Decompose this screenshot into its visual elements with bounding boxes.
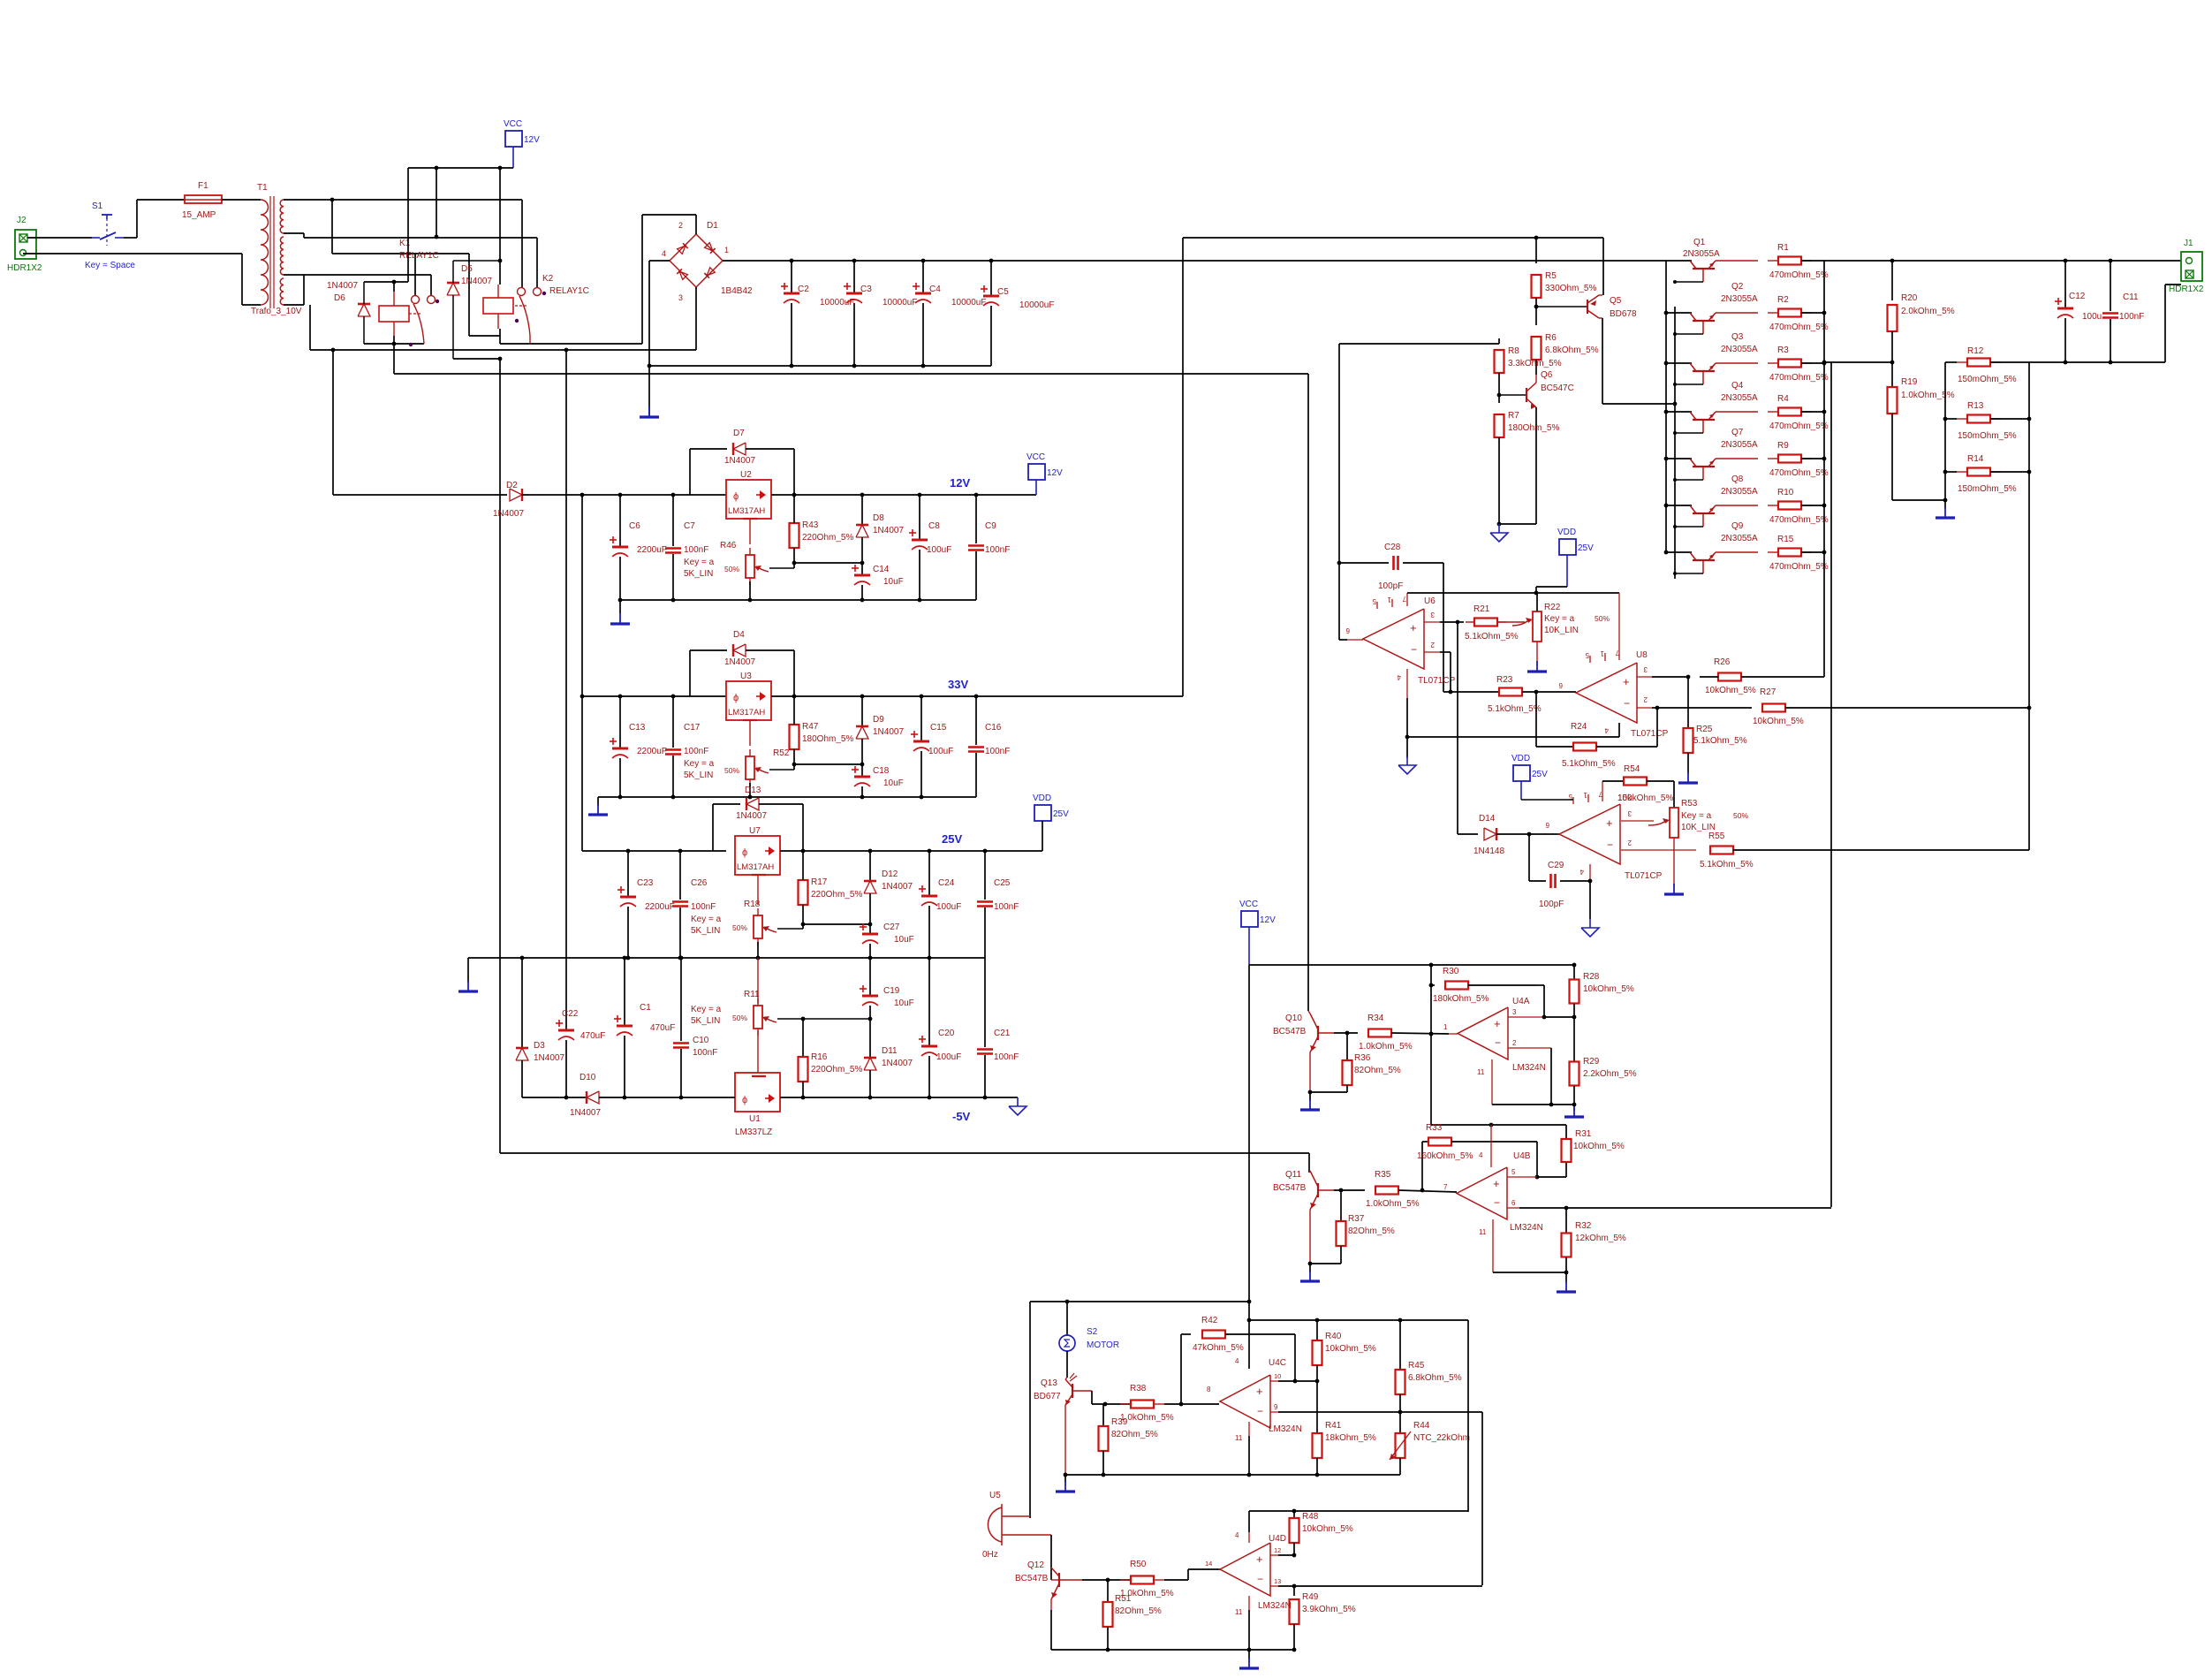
svg-text:50%: 50% — [1595, 614, 1610, 623]
capacitor C21 — [984, 958, 986, 1047]
svg-text:D13: D13 — [745, 786, 761, 795]
svg-text:82Ohm_5%: 82Ohm_5% — [1354, 1066, 1401, 1075]
svg-text:12kOhm_5%: 12kOhm_5% — [1575, 1234, 1626, 1243]
node filter cap C2 top — [790, 259, 794, 263]
wire adj row to D12 and C27 — [803, 923, 870, 925]
svg-text:5: 5 — [1372, 597, 1376, 605]
svg-text:LM324N: LM324N — [1269, 1424, 1302, 1434]
svg-text:4: 4 — [1235, 1357, 1239, 1365]
wire U2 adj to pot — [749, 519, 751, 544]
diode D2 feed to regulators — [333, 494, 507, 496]
svg-text:100nF: 100nF — [985, 545, 1010, 555]
svg-text:U2: U2 — [740, 470, 752, 480]
wire K2 coil bottom frame — [499, 329, 501, 344]
svg-text:5: 5 — [1511, 1168, 1516, 1176]
svg-text:C11: C11 — [2123, 292, 2139, 302]
svg-text:F1: F1 — [198, 181, 208, 191]
resistor R8 — [1498, 338, 1500, 344]
wire relay frame stub — [309, 305, 311, 350]
svg-text:2: 2 — [1512, 1039, 1517, 1047]
capacitor C13 — [619, 696, 621, 748]
U6 output pin 6 — [1347, 639, 1363, 641]
svg-text:470mOhm_5%: 470mOhm_5% — [1769, 323, 1829, 332]
svg-text:C17: C17 — [684, 723, 701, 733]
capacitor C3 — [853, 261, 855, 292]
node C15 top — [920, 695, 924, 699]
svg-text:Key = a: Key = a — [1544, 614, 1575, 624]
wire R19 bottom to ground — [1892, 499, 1945, 501]
wire Q13 base node — [1091, 1391, 1093, 1404]
svg-text:1.0kOhm_5%: 1.0kOhm_5% — [1120, 1589, 1174, 1598]
resistor R1 470mOhm — [1716, 260, 1758, 262]
svg-text:VDD: VDD — [1557, 528, 1576, 537]
capacitor C8 — [919, 495, 920, 539]
svg-text:12V: 12V — [1260, 915, 1276, 925]
node ac return into common bus — [565, 957, 567, 959]
U4C pin11 stub — [1248, 1422, 1250, 1436]
svg-text:220Ohm_5%: 220Ohm_5% — [811, 1065, 862, 1074]
wire S1 to F1 — [124, 237, 137, 239]
wire C28 right to R23 left — [1443, 563, 1444, 692]
wire R18 bottom to common bus — [757, 942, 759, 958]
svg-text:−: − — [1495, 1036, 1501, 1049]
svg-text:10000uF: 10000uF — [820, 298, 854, 308]
wire pin9 line down to U4D pin13 loop — [1481, 1412, 1483, 1585]
svg-text:1N4007: 1N4007 — [736, 811, 767, 821]
op-amp U9 TL071CP — [1559, 804, 1620, 864]
svg-text:MOTOR: MOTOR — [1087, 1340, 1119, 1350]
svg-text:10000uF: 10000uF — [883, 298, 917, 308]
wire R18 wiper to adj node — [777, 928, 803, 930]
svg-text:R4: R4 — [1777, 394, 1789, 404]
ground Q13 emitter — [1064, 1475, 1066, 1483]
svg-text:+: + — [1606, 816, 1613, 830]
svg-text:470uF: 470uF — [650, 1023, 675, 1033]
wire R33 right to U4B pin5 node — [1451, 1141, 1537, 1143]
svg-text:VCC: VCC — [504, 119, 522, 129]
svg-text:R49: R49 — [1302, 1592, 1319, 1602]
svg-text:D11: D11 — [882, 1046, 898, 1056]
svg-text:ϕ: ϕ — [742, 847, 747, 858]
svg-text:15_AMP: 15_AMP — [182, 210, 216, 220]
svg-text:C14: C14 — [873, 565, 890, 574]
U9 pin2 wire to R55 — [1621, 849, 1696, 851]
voltage regulator U2 LM317AH — [726, 480, 771, 519]
potentiometer R46 5K_LIN — [746, 555, 754, 578]
thermistor R44 NTC_22kOhm — [1399, 1412, 1401, 1433]
svg-text:U7: U7 — [749, 826, 761, 836]
svg-text:Q12: Q12 — [1027, 1560, 1044, 1570]
wire Q7 base to base bus — [1675, 479, 1703, 481]
svg-text:11: 11 — [1479, 1228, 1487, 1236]
wire Q6 collector to R6 bottom — [1535, 375, 1537, 383]
wire U4C pin9 row — [1278, 1411, 1482, 1413]
svg-text:100uF: 100uF — [927, 545, 951, 555]
U8 pin2 wire — [1637, 707, 1652, 709]
wire 33V input row — [580, 695, 585, 699]
svg-text:3: 3 — [1643, 665, 1648, 673]
svg-text:BD677: BD677 — [1034, 1392, 1061, 1401]
wire U4B bottom row — [1493, 1272, 1566, 1273]
ground R53 — [1673, 884, 1675, 894]
svg-text:U4D: U4D — [1269, 1534, 1286, 1544]
svg-text:1N4007: 1N4007 — [493, 509, 524, 519]
resistor R35 — [1375, 1189, 1376, 1191]
svg-text:100pF: 100pF — [1539, 900, 1564, 909]
svg-text:1.0kOhm_5%: 1.0kOhm_5% — [1120, 1413, 1174, 1423]
wire VCC to R30 node — [1429, 963, 1434, 968]
resistor R26 — [1717, 676, 1719, 678]
svg-text:R29: R29 — [1583, 1057, 1600, 1067]
resistor R54 — [1602, 780, 1625, 782]
power VCC 12V top — [505, 131, 522, 147]
svg-text:C7: C7 — [684, 521, 695, 531]
wire U7 adj to pot — [757, 875, 759, 905]
wire K2 common up to bridge ac input — [641, 215, 643, 344]
resistor R47 — [793, 724, 795, 725]
node C25 top — [983, 849, 988, 854]
node R17 top — [801, 849, 806, 854]
svg-text:0Hz: 0Hz — [982, 1550, 998, 1560]
svg-text:12: 12 — [1274, 1546, 1281, 1554]
resistor R24 — [1535, 692, 1537, 747]
svg-text:LM317AH: LM317AH — [728, 708, 765, 718]
svg-text:2.0kOhm_5%: 2.0kOhm_5% — [1901, 307, 1955, 316]
svg-text:K2: K2 — [542, 274, 554, 284]
svg-text:U3: U3 — [740, 672, 752, 681]
transistor Q8 2N3055A — [1664, 504, 1669, 508]
capacitor C6 — [619, 495, 621, 546]
U8 pin stubs top 5 1 7 — [1589, 656, 1591, 663]
diode D7 bypass — [689, 449, 691, 495]
wire ac return down the left side — [565, 350, 567, 1029]
svg-text:+: + — [1623, 675, 1630, 688]
svg-text:R21: R21 — [1473, 604, 1490, 614]
svg-text:50%: 50% — [732, 923, 747, 932]
svg-text:−: − — [1257, 1573, 1263, 1585]
op-amp U4C LM324N — [1220, 1375, 1270, 1428]
svg-text:C13: C13 — [629, 723, 646, 733]
resistor R43 — [793, 522, 795, 524]
capacitor C16 — [975, 696, 977, 745]
wire caps bottom rail — [649, 365, 991, 367]
wire K2 coil top to VCC line — [499, 168, 501, 285]
svg-text:100nF: 100nF — [684, 545, 708, 555]
svg-text:100nF: 100nF — [684, 747, 708, 756]
svg-text:R50: R50 — [1130, 1560, 1147, 1569]
resistor R17 — [802, 879, 804, 881]
svg-text:220Ohm_5%: 220Ohm_5% — [811, 890, 862, 900]
svg-text:4: 4 — [1235, 1531, 1239, 1539]
svg-text:10k: 10k — [1617, 793, 1632, 803]
fuse F1 — [185, 195, 222, 203]
svg-text:R28: R28 — [1583, 972, 1600, 982]
svg-text:4: 4 — [1604, 726, 1609, 734]
svg-text:7: 7 — [1598, 790, 1602, 798]
svg-text:S2: S2 — [1087, 1327, 1098, 1337]
wire F1 to T1 — [222, 199, 261, 201]
svg-text:R36: R36 — [1354, 1053, 1371, 1063]
resistor R51 — [1107, 1580, 1109, 1602]
node C7 top — [671, 493, 676, 497]
wire T1 bottom tap — [284, 304, 304, 306]
svg-text:BD678: BD678 — [1610, 309, 1637, 319]
wire K1 coil bottom frame — [364, 343, 424, 345]
power VCC 12V at regulator output — [1028, 464, 1045, 480]
U4D pin4 stub — [1248, 1511, 1250, 1532]
svg-text:100uF: 100uF — [928, 747, 953, 756]
svg-text:5: 5 — [1585, 651, 1589, 659]
node filter cap C4 top — [921, 259, 926, 263]
U9 pin4 and C29 — [1589, 864, 1591, 881]
svg-text:R27: R27 — [1760, 687, 1776, 697]
svg-text:C15: C15 — [930, 723, 947, 733]
wire driver output rail to transistor bank — [1602, 260, 1666, 262]
wire R12 row to C12 C11 J1 sense — [2029, 361, 2165, 363]
resistor R14 — [1943, 470, 1948, 475]
svg-text:2N3055A: 2N3055A — [1721, 534, 1758, 543]
svg-text:470mOhm_5%: 470mOhm_5% — [1769, 468, 1829, 478]
collector bus Q1-Q9 — [1665, 261, 1667, 552]
ground U4A — [1573, 1105, 1575, 1110]
wire R46 bottom to ground bus — [749, 581, 751, 600]
wire adj row to D9 and C18 — [794, 763, 862, 765]
wire S2 to Q13 collector — [1066, 1351, 1068, 1378]
svg-text:D2: D2 — [506, 481, 518, 490]
wire R54 to R53 top — [1647, 780, 1674, 782]
svg-text:D8: D8 — [873, 513, 884, 523]
svg-text:R42: R42 — [1201, 1316, 1218, 1325]
ground common bus — [467, 958, 469, 983]
wire sense tap row — [1824, 361, 1892, 363]
resistor R27 — [1657, 707, 1752, 709]
svg-text:R44: R44 — [1413, 1421, 1430, 1431]
svg-text:C9: C9 — [985, 521, 996, 531]
svg-text:-5V: -5V — [952, 1110, 971, 1123]
svg-text:R31: R31 — [1575, 1129, 1592, 1139]
svg-text:Q6: Q6 — [1541, 370, 1553, 380]
svg-text:10: 10 — [1274, 1372, 1281, 1380]
svg-text:S1: S1 — [92, 201, 103, 211]
svg-text:47kOhm_5%: 47kOhm_5% — [1193, 1343, 1244, 1353]
wire relay drive bus down to Q10 collector — [1307, 374, 1309, 1011]
capacitor C5 — [990, 261, 992, 295]
wire U4A pin3 node — [1542, 1015, 1547, 1020]
svg-text:1.0kOhm_5%: 1.0kOhm_5% — [1359, 1042, 1413, 1052]
resistor R30 — [1429, 983, 1434, 988]
wire VDD U9 supply — [1520, 781, 1522, 800]
svg-text:10uF: 10uF — [883, 778, 904, 788]
transistor Q11 BC547B — [1317, 1183, 1319, 1197]
resistor R28 — [1573, 965, 1575, 980]
U8 pin3 wire to R26 — [1637, 676, 1652, 678]
capacitor C7 — [672, 495, 674, 546]
svg-text:TL071CP: TL071CP — [1631, 729, 1669, 739]
svg-text:T1: T1 — [257, 183, 268, 193]
svg-text:25V: 25V — [1578, 543, 1594, 553]
wire R30 right to U4A pin3 node — [1536, 984, 1544, 986]
connector J2 — [15, 230, 36, 259]
voltage regulator U7 LM317AH — [735, 836, 780, 875]
relay K1 armature — [413, 304, 424, 344]
resistor R9 470mOhm — [1716, 458, 1758, 459]
resistor R25 — [1687, 677, 1689, 728]
svg-text:C24: C24 — [938, 878, 955, 888]
svg-text:HDR1X2: HDR1X2 — [2169, 285, 2204, 294]
ground U4D section — [1248, 1650, 1250, 1659]
svg-text:R47: R47 — [802, 722, 819, 732]
resistor R12 — [1945, 361, 1957, 363]
svg-text:R43: R43 — [802, 520, 819, 530]
wire op-amp supply rail 25V — [1407, 592, 1619, 594]
svg-text:10kOhm_5%: 10kOhm_5% — [1573, 1142, 1625, 1151]
svg-text:R8: R8 — [1508, 346, 1519, 356]
svg-text:D6: D6 — [334, 293, 345, 303]
node C24 top — [928, 849, 932, 854]
U6 pin 2 wire — [1424, 651, 1440, 653]
connector J1 — [2181, 252, 2202, 281]
capacitor C28 100pF — [1339, 562, 1389, 564]
transistor Q6 BC547C — [1499, 394, 1526, 396]
ground at bridge minus — [648, 406, 650, 417]
svg-text:2200uF: 2200uF — [637, 545, 667, 555]
svg-text:Q7: Q7 — [1731, 428, 1744, 437]
relay K2 contacts — [518, 288, 526, 296]
svg-text:1.0kOhm_5%: 1.0kOhm_5% — [1901, 391, 1955, 400]
svg-text:R55: R55 — [1708, 831, 1725, 841]
relay K2 coil — [483, 298, 513, 314]
svg-text:R24: R24 — [1571, 722, 1587, 732]
diode D9 — [861, 696, 863, 726]
svg-text:J2: J2 — [17, 216, 27, 225]
resistor R55 — [1709, 849, 1711, 851]
ground R25 — [1687, 772, 1689, 783]
svg-text:1N4007: 1N4007 — [570, 1108, 601, 1118]
wire U4D pin13 row — [1278, 1585, 1482, 1587]
svg-text:C25: C25 — [994, 878, 1011, 888]
svg-text:Q3: Q3 — [1731, 332, 1744, 342]
resistor R16 — [802, 1019, 804, 1057]
wire Q6 emitter down — [1535, 407, 1537, 524]
diode D13 bypass — [712, 804, 714, 851]
svg-text:10000uF: 10000uF — [951, 298, 986, 308]
svg-text:R48: R48 — [1302, 1512, 1319, 1522]
wire U4A pin2 down to gnd row — [1550, 1048, 1552, 1105]
wire R52 wiper to adj node — [769, 769, 794, 771]
diode D11 — [869, 1019, 871, 1058]
U6 pin stubs top 5 1 7 — [1376, 602, 1378, 609]
diode D5 flyback for K2 — [447, 282, 459, 285]
svg-text:2N3055A: 2N3055A — [1721, 487, 1758, 497]
svg-text:C1: C1 — [640, 1003, 651, 1013]
svg-text:1N4007: 1N4007 — [873, 526, 904, 535]
svg-text:Q13: Q13 — [1041, 1378, 1057, 1388]
svg-text:5K_LIN: 5K_LIN — [691, 1016, 720, 1026]
svg-text:Q2: Q2 — [1731, 282, 1744, 292]
resistor R10 470mOhm — [1716, 505, 1758, 506]
svg-text:−: − — [1494, 1196, 1500, 1209]
ground U6 — [1406, 756, 1408, 765]
transistor Q4 2N3055A — [1664, 410, 1669, 414]
wire base Q5 — [1536, 306, 1587, 308]
svg-text:VDD: VDD — [1511, 754, 1530, 763]
svg-text:2N3055A: 2N3055A — [1683, 249, 1720, 259]
wire relay K2 armature frame feed — [415, 253, 469, 254]
node R17 bottom adj — [801, 923, 806, 927]
svg-text:R30: R30 — [1443, 967, 1459, 976]
svg-text:C29: C29 — [1548, 861, 1564, 870]
wire tap1 branch to K1 contact A — [331, 200, 333, 254]
resistor R6 — [1535, 307, 1537, 325]
wire VDD stub to 25V rail — [1042, 821, 1043, 851]
wire U7 output row 25V — [780, 850, 1042, 852]
svg-text:BC547B: BC547B — [1273, 1183, 1307, 1193]
power VDD 25V — [1034, 805, 1051, 821]
switch S1 — [92, 237, 100, 239]
svg-text:5K_LIN: 5K_LIN — [691, 926, 720, 936]
svg-text:Key = Space: Key = Space — [85, 261, 135, 270]
svg-text:ϕ: ϕ — [742, 1095, 747, 1105]
diode D14 1N4148 — [1458, 833, 1478, 835]
diode D8 — [861, 495, 863, 525]
transistor Q5 BD678 — [1587, 300, 1588, 314]
svg-text:R54: R54 — [1624, 764, 1640, 774]
svg-text:2: 2 — [1627, 839, 1632, 847]
wire top output rail to J1 — [1824, 260, 2181, 262]
wire 25V input row — [582, 850, 726, 852]
node C9 top — [974, 493, 979, 497]
wire R55 to sense divider — [1733, 849, 2029, 851]
svg-text:3: 3 — [1627, 809, 1632, 817]
svg-text:C10: C10 — [693, 1036, 709, 1045]
op-amp U4D LM324N — [1220, 1543, 1270, 1596]
node C17 top — [671, 695, 676, 699]
svg-text:12V: 12V — [950, 476, 970, 490]
resistor R29 — [1573, 1017, 1575, 1062]
svg-text:TL071CP: TL071CP — [1625, 871, 1663, 881]
svg-text:RELAY1C: RELAY1C — [549, 286, 589, 296]
wire Q5 emitter from 33V feed — [1602, 238, 1604, 295]
svg-text:5.1kOhm_5%: 5.1kOhm_5% — [1700, 860, 1754, 869]
wire U4A bottom row — [1492, 1104, 1574, 1105]
svg-text:D3: D3 — [534, 1041, 545, 1051]
svg-text:R26: R26 — [1714, 657, 1731, 667]
svg-text:C23: C23 — [637, 878, 654, 888]
node ac return — [564, 348, 569, 353]
U9 pin stubs top 5 1 7 — [1572, 797, 1574, 804]
svg-text:180Ohm_5%: 180Ohm_5% — [802, 734, 853, 744]
resistor R5 — [1535, 238, 1537, 263]
wire D5 bottom to K2 coil bottom net — [453, 358, 500, 360]
svg-text:R35: R35 — [1375, 1170, 1391, 1180]
node D11 bottom — [868, 1096, 873, 1100]
resistor R31 — [1565, 1125, 1567, 1139]
svg-text:R22: R22 — [1544, 603, 1561, 612]
svg-text:R25: R25 — [1696, 725, 1713, 734]
wire U6 pin3 node down to D14 — [1457, 622, 1458, 834]
U4D pin11 stub — [1248, 1596, 1250, 1610]
svg-text:9: 9 — [1274, 1403, 1278, 1411]
node C16 top — [974, 695, 979, 699]
diode D10 — [522, 1097, 586, 1098]
svg-text:D14: D14 — [1479, 814, 1496, 824]
svg-text:Q9: Q9 — [1731, 521, 1744, 531]
wire C29 node to ground — [1589, 881, 1591, 919]
svg-text:U4A: U4A — [1512, 997, 1530, 1006]
wire bridge pin3 down to ac return — [695, 287, 697, 350]
svg-text:2N3055A: 2N3055A — [1721, 393, 1758, 403]
svg-text:180Ohm_5%: 180Ohm_5% — [1508, 423, 1559, 433]
